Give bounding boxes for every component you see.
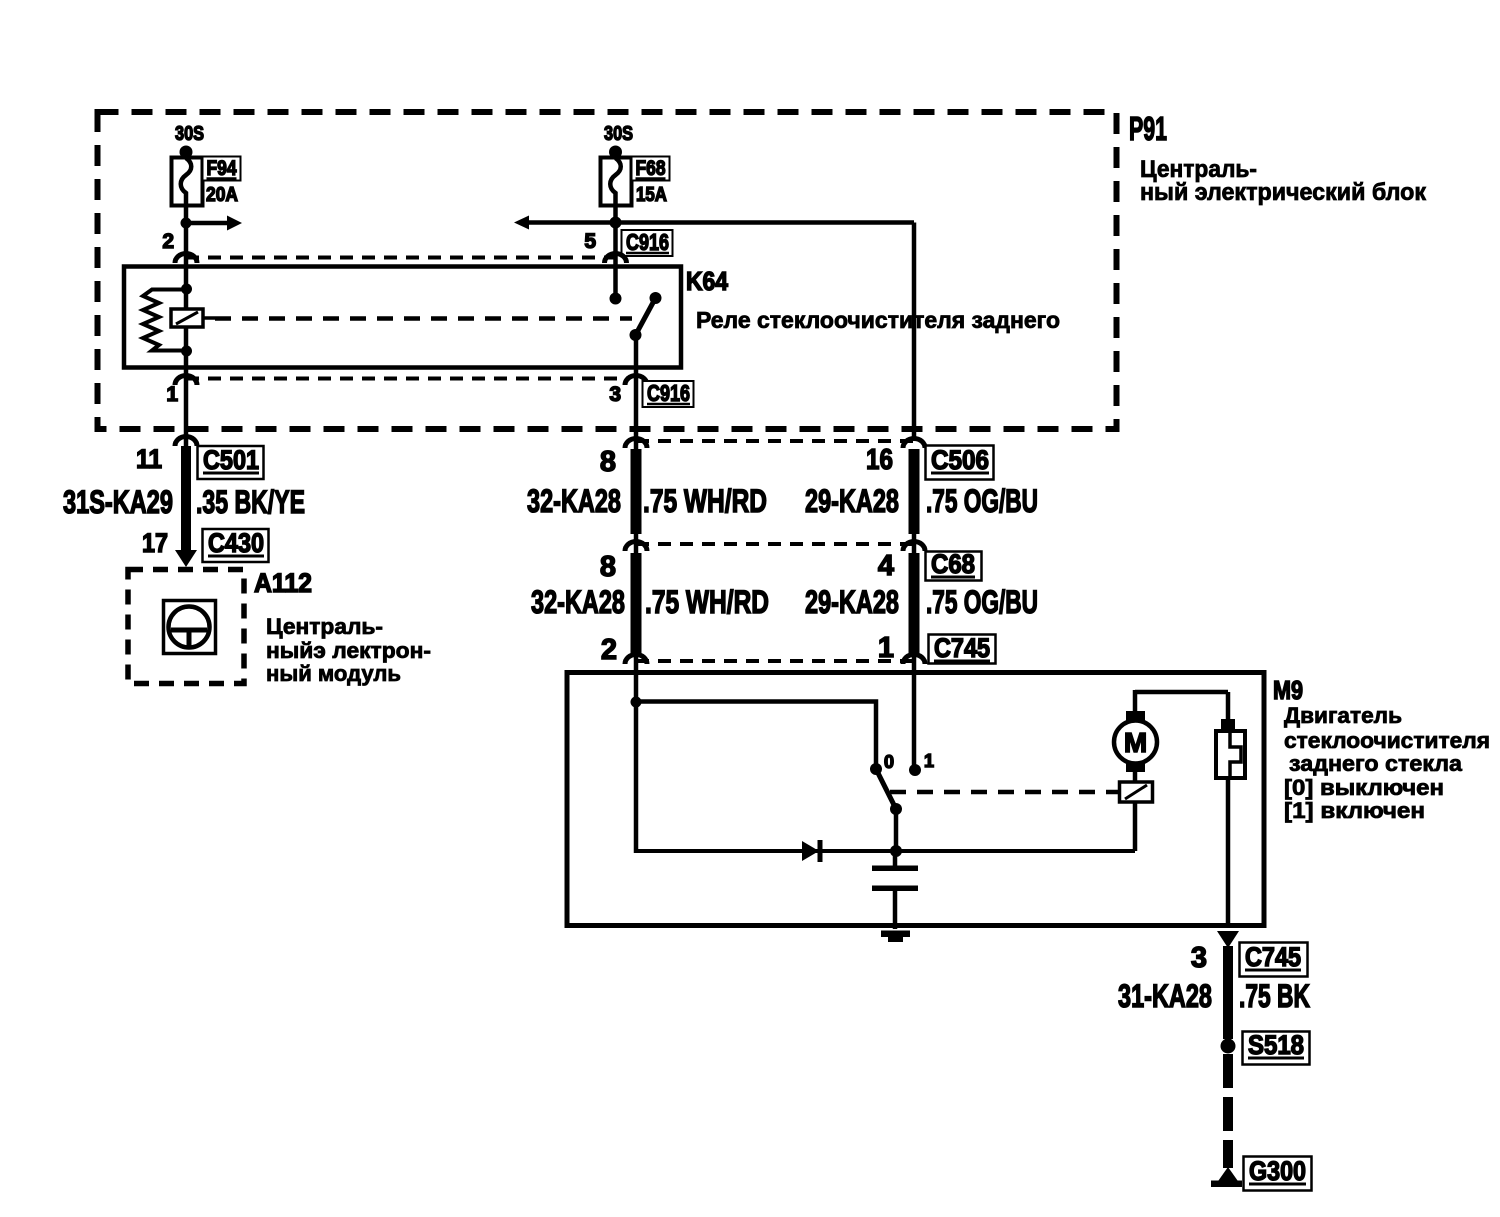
svg-text:17: 17 [142, 528, 168, 558]
relay switch fixed contact dot (pin 5) [610, 293, 622, 305]
wire 29-KA28 thin gap [912, 530, 917, 556]
junction dot left feed [631, 697, 642, 708]
motor M [1114, 711, 1157, 772]
svg-text:C745: C745 [1245, 942, 1301, 972]
relay actuator box [171, 309, 215, 327]
junction dot coil bottom [181, 346, 192, 357]
steering wheel icon [169, 607, 210, 648]
svg-text:Реле стеклоочистителя заднего: Реле стеклоочистителя заднего [696, 307, 1060, 333]
svg-text:8: 8 [600, 446, 616, 478]
dashed link actuator to relay switch [215, 316, 632, 321]
label box C916 lower [643, 380, 694, 407]
wire park switch to motor [1133, 770, 1138, 782]
svg-text:C745: C745 [934, 633, 990, 663]
svg-text:P91: P91 [1129, 110, 1167, 147]
svg-text:29-KA28: 29-KA28 [805, 584, 899, 620]
connector symbol pin 3 [625, 376, 647, 385]
svg-text:ныйэ лектрон-: ныйэ лектрон- [266, 638, 431, 663]
svg-text:2: 2 [162, 230, 174, 253]
wire to switch contact 0 [636, 702, 876, 767]
junction dot 30S F68 [609, 146, 622, 159]
switch contact 1 dot [909, 764, 921, 776]
svg-text:15A: 15A [636, 184, 667, 206]
svg-text:4: 4 [878, 550, 894, 582]
connector arrow pin 3 C745 [1217, 931, 1239, 948]
svg-text:0: 0 [884, 752, 894, 772]
svg-text:M9: M9 [1273, 675, 1303, 705]
svg-text:K64: K64 [686, 266, 728, 296]
svg-text:32-KA28: 32-KA28 [527, 483, 621, 519]
svg-text:S518: S518 [1248, 1030, 1304, 1060]
svg-text:Двигатель: Двигатель [1284, 703, 1402, 728]
dashed line connector C916 lower [186, 377, 630, 381]
relay switch blade [636, 298, 656, 335]
svg-text:A112: A112 [254, 568, 312, 598]
wire F94 to relay pin 2 [184, 205, 189, 267]
connector symbol pin 2 C745 [625, 655, 647, 665]
svg-text:C430: C430 [208, 528, 264, 558]
svg-text:1: 1 [924, 751, 934, 771]
svg-text:G300: G300 [1249, 1156, 1306, 1186]
svg-text:31-KA28: 31-KA28 [1118, 978, 1212, 1014]
svg-text:ный модуль: ный модуль [266, 661, 401, 686]
junction dot under F68 [610, 217, 622, 229]
block P91 dashed box (central electrical block) [98, 112, 1117, 429]
wire 32-KA28 upper (thick) [631, 449, 642, 534]
svg-text:C916: C916 [626, 229, 669, 255]
wire 31-KA28 (thick) [1223, 946, 1233, 1039]
junction dot 30S F94 [180, 146, 193, 159]
wire pivot down [894, 809, 899, 851]
svg-text:стеклоочистителя: стеклоочистителя [1284, 728, 1490, 753]
ground symbol G300 [1211, 1167, 1242, 1187]
connector symbol pin 8 C506 [625, 439, 647, 449]
wire to breaker [1226, 692, 1231, 722]
switch contact 0 dot [870, 763, 882, 775]
junction dot bus [890, 845, 902, 857]
chassis ground in M9 [881, 931, 910, 943]
dashed connector line C68 row [636, 542, 914, 546]
svg-text:.75 BK: .75 BK [1239, 978, 1310, 1014]
svg-text:[0] выключен: [0] выключен [1284, 775, 1444, 800]
relay wire pin2 to pin1 [184, 267, 189, 368]
fuse F94 [172, 158, 203, 207]
svg-text:.75 WH/RD: .75 WH/RD [645, 584, 769, 620]
capacitor (suppressor) [872, 851, 918, 929]
blade pivot dot M9 [890, 803, 902, 815]
svg-text:30S: 30S [175, 123, 204, 145]
svg-text:1: 1 [166, 383, 178, 406]
wire pin 1 down [184, 368, 189, 446]
svg-text:8: 8 [600, 551, 616, 583]
junction dot coil top [181, 284, 192, 295]
connector symbol pin 1 [175, 376, 197, 385]
wire 32-KA28 thin gap [634, 530, 639, 556]
top link wire [1135, 690, 1228, 695]
label box C745 lower [1240, 942, 1308, 977]
label box F68 [632, 157, 670, 181]
label box G300 [1244, 1156, 1312, 1191]
arrow into module A112 [175, 550, 197, 567]
svg-text:.75 OG/BU: .75 OG/BU [926, 483, 1038, 519]
module A112 dashed box [128, 570, 244, 684]
splice S518 dot [1221, 1039, 1236, 1054]
wire motor top [1133, 690, 1138, 711]
svg-text:5: 5 [584, 230, 596, 253]
connector symbol C501 pin 11 [175, 437, 197, 447]
svg-text:Централь-: Централь- [266, 614, 383, 639]
svg-text:32-KA28: 32-KA28 [531, 584, 625, 620]
svg-text:16: 16 [866, 444, 893, 476]
svg-text:2: 2 [601, 634, 617, 666]
svg-text:29-KA28: 29-KA28 [805, 483, 899, 519]
wire 29-KA28 into M9 [912, 654, 917, 766]
wire splice to ground (thick dashed) [1223, 1054, 1233, 1168]
svg-text:.75 OG/BU: .75 OG/BU [926, 584, 1038, 620]
dashed connector line C506 row [636, 439, 914, 443]
wire breaker to pin 3 [1226, 778, 1231, 928]
svg-text:20A: 20A [206, 184, 238, 206]
blade tip dot [650, 292, 662, 304]
svg-text:[1] включен: [1] включен [1284, 798, 1425, 823]
junction dot under F94 [181, 218, 192, 229]
svg-text:30S: 30S [604, 123, 633, 145]
label box C68 [926, 549, 982, 581]
circuit breaker [1216, 719, 1245, 778]
wire 32-KA28 lower (thick) [631, 553, 642, 656]
wire F68 node to right column [615, 220, 914, 225]
svg-text:11: 11 [136, 444, 162, 474]
label box C916 upper [622, 229, 673, 256]
wire pin 3 down [634, 335, 639, 450]
svg-text:F94: F94 [207, 157, 237, 180]
label box C506 [926, 445, 994, 480]
switch blade M9 [876, 769, 896, 809]
label box C501 [198, 445, 264, 479]
wire 29-KA28 upper (thick) [909, 449, 920, 534]
dashed line connector C916 upper [186, 256, 614, 260]
svg-text:ный электрический блок: ный электрический блок [1140, 179, 1427, 206]
fuse F68 [601, 158, 632, 207]
dashed connector line C745 row [636, 659, 914, 663]
connector symbol pin 1 C745 [903, 655, 925, 665]
blade pivot dot [630, 329, 642, 341]
wire 32-KA28 into M9 [634, 654, 639, 853]
connector symbol pin 16 C506 [903, 439, 925, 449]
connector symbol pin 5 [605, 254, 627, 264]
label box C430 [203, 528, 269, 562]
svg-text:M: M [1124, 727, 1147, 758]
svg-text:C68: C68 [931, 549, 975, 579]
arrow to other circuit (right) [186, 216, 242, 231]
relay K64 box [124, 267, 681, 368]
wire 29-KA28 lower (thick) [909, 553, 920, 656]
wire F68 down to relay pin 5 [613, 205, 618, 298]
svg-text:F68: F68 [636, 157, 666, 180]
dashed link blade to park switch [890, 790, 1119, 795]
motor M9 box [567, 673, 1264, 926]
svg-text:1: 1 [878, 632, 894, 664]
wire right column down to P91 border [912, 223, 917, 441]
relay coil (zigzag) [143, 290, 186, 351]
svg-text:3: 3 [609, 383, 621, 406]
svg-text:.35 BK/YE: .35 BK/YE [196, 484, 305, 520]
svg-text:заднего стекла: заднего стекла [1289, 751, 1463, 776]
svg-text:31S-KA29: 31S-KA29 [63, 484, 173, 520]
label box F94 [203, 157, 241, 181]
A112 inner icon box [164, 601, 216, 654]
label box C745 [929, 633, 996, 664]
diode [802, 840, 823, 862]
arrow to other circuit (left) [514, 216, 615, 230]
connector symbol pin 4 C68 [903, 542, 925, 552]
label box S518 [1243, 1030, 1310, 1065]
wire 31S-KA29 (thick) [181, 446, 191, 552]
connector symbol pin 2 [175, 254, 197, 264]
svg-text:C916: C916 [647, 380, 690, 406]
svg-text:C506: C506 [931, 445, 989, 475]
park switch box [1120, 782, 1153, 802]
riser to park switch [1133, 802, 1138, 851]
svg-text:3: 3 [1191, 942, 1207, 974]
connector symbol pin 8 C68 [625, 542, 647, 552]
bus wire with diode [636, 849, 1135, 853]
svg-text:C501: C501 [203, 445, 259, 475]
svg-text:.75 WH/RD: .75 WH/RD [643, 483, 767, 519]
